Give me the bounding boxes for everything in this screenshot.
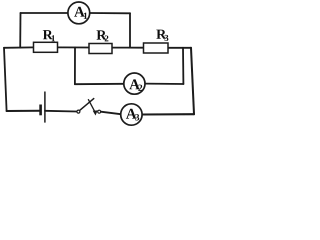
wire bottom: A3 to right corner (142, 113, 194, 115)
ammeter A3 (121, 104, 142, 125)
wire top-left horizontal (A1 loop) (21, 12, 69, 14)
ammeter A1 (68, 2, 90, 24)
wire bottom: battery to switch (45, 110, 77, 113)
wire A1-loop left vertical (19, 13, 21, 48)
wire bottom: corner to battery (7, 110, 41, 112)
ammeter A2 (124, 73, 145, 94)
wire A2-loop left vertical (74, 48, 76, 85)
wire resistor-row left segment (4, 46, 34, 48)
wire right outer vertical (191, 48, 194, 114)
switch S (77, 98, 101, 115)
wire resistor-row right segment (168, 47, 191, 49)
wire top-right horizontal (A1 loop) (90, 12, 130, 14)
wire between R1 and R2 (58, 46, 90, 48)
wire A2-loop right vertical (182, 48, 184, 84)
wire bottom: switch to A3 (101, 112, 121, 115)
wire A2-loop right horizontal (145, 83, 183, 85)
battery (41, 92, 45, 123)
wire A2-loop left horizontal (75, 83, 124, 85)
resistor R3 (144, 30, 169, 53)
resistor R1 (34, 30, 58, 52)
wire left outer vertical (4, 48, 7, 111)
wire between R2 and R3 (112, 47, 144, 49)
wire A1-loop right vertical (129, 13, 131, 47)
resistor R2 (89, 30, 112, 53)
